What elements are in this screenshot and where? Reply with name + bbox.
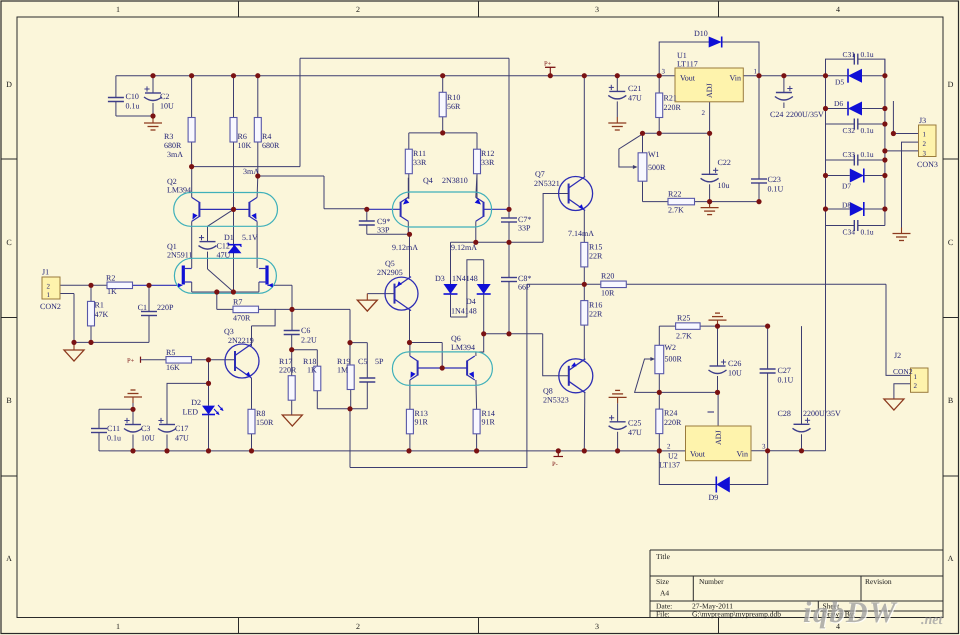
svg-text:500R: 500R: [648, 163, 666, 172]
svg-text:C33: C33: [843, 150, 856, 159]
svg-text:R8: R8: [256, 409, 265, 418]
svg-text:C23: C23: [768, 175, 781, 184]
svg-text:2N2905: 2N2905: [377, 268, 403, 277]
svg-text:33P: 33P: [377, 226, 390, 235]
svg-text:3: 3: [595, 5, 599, 14]
svg-text:C: C: [948, 238, 953, 247]
svg-text:2: 2: [702, 109, 706, 117]
svg-text:2: 2: [667, 443, 671, 451]
svg-text:10u: 10u: [718, 181, 730, 190]
svg-text:ADJ: ADJ: [714, 430, 723, 445]
svg-text:1N4148: 1N4148: [451, 307, 477, 316]
svg-text:J2: J2: [894, 351, 901, 360]
svg-text:C24: C24: [770, 110, 783, 119]
svg-text:Vin: Vin: [736, 450, 748, 459]
svg-text:D7: D7: [842, 182, 851, 191]
svg-text:C11: C11: [107, 424, 120, 433]
svg-text:91R: 91R: [482, 418, 496, 427]
svg-text:D9: D9: [709, 493, 719, 502]
svg-text:0.1U: 0.1U: [778, 376, 794, 385]
svg-text:1K: 1K: [107, 287, 117, 296]
svg-text:9.12mA: 9.12mA: [451, 243, 477, 252]
svg-text:2.2U: 2.2U: [301, 336, 317, 345]
svg-text:5.1V: 5.1V: [242, 233, 258, 242]
svg-text:R5: R5: [166, 348, 175, 357]
svg-text:47K: 47K: [95, 310, 109, 319]
svg-text:9.12mA: 9.12mA: [392, 243, 418, 252]
svg-text:Title: Title: [656, 552, 671, 561]
svg-text:680R: 680R: [262, 141, 280, 150]
svg-text:10U: 10U: [160, 102, 174, 111]
svg-text:0.1u: 0.1u: [861, 150, 874, 159]
svg-text:C34: C34: [843, 228, 856, 237]
svg-text:2N5911: 2N5911: [167, 251, 192, 260]
svg-text:C6: C6: [301, 326, 310, 335]
svg-text:LM394: LM394: [451, 343, 475, 352]
svg-text:33R: 33R: [413, 158, 427, 167]
svg-text:22R: 22R: [589, 310, 603, 319]
svg-text:A: A: [6, 554, 12, 563]
svg-text:U2: U2: [668, 452, 678, 461]
svg-text:3: 3: [662, 68, 666, 76]
svg-text:1: 1: [923, 131, 927, 139]
svg-text:1K: 1K: [307, 366, 317, 375]
svg-text:470R: 470R: [233, 314, 251, 323]
svg-text:10R: 10R: [601, 289, 615, 298]
svg-text:CON3: CON3: [917, 160, 938, 169]
svg-text:B: B: [6, 396, 11, 405]
svg-text:R20: R20: [601, 272, 614, 281]
svg-text:C27: C27: [778, 366, 791, 375]
svg-text:R21: R21: [664, 94, 677, 103]
svg-text:500R: 500R: [665, 355, 683, 364]
svg-text:220R: 220R: [279, 366, 297, 375]
svg-text:Vout: Vout: [680, 74, 696, 83]
svg-text:D6: D6: [834, 99, 843, 108]
svg-text:C12: C12: [217, 242, 230, 251]
svg-text:R25: R25: [677, 314, 690, 323]
svg-text:W2: W2: [665, 343, 677, 352]
svg-text:R22: R22: [668, 190, 681, 199]
svg-text:2200U/35V: 2200U/35V: [803, 409, 841, 418]
svg-text:2: 2: [914, 382, 918, 390]
svg-text:P-: P-: [552, 461, 558, 468]
svg-text:B: B: [948, 396, 953, 405]
svg-text:File:: File:: [656, 610, 670, 619]
svg-text:220R: 220R: [664, 103, 682, 112]
svg-text:Q7: Q7: [535, 170, 545, 179]
svg-text:1M: 1M: [337, 366, 348, 375]
svg-text:Revision: Revision: [865, 577, 892, 586]
svg-text:D4: D4: [466, 297, 476, 306]
svg-text:2N2219: 2N2219: [228, 336, 254, 345]
svg-text:Q4: Q4: [423, 176, 433, 185]
svg-text:D: D: [948, 80, 954, 89]
svg-text:150R: 150R: [256, 418, 274, 427]
svg-text:4: 4: [836, 5, 840, 14]
svg-text:C21: C21: [628, 84, 641, 93]
svg-text:C3: C3: [141, 424, 150, 433]
svg-text:Q3: Q3: [224, 327, 234, 336]
svg-text:R11: R11: [413, 149, 426, 158]
svg-text:56R: 56R: [447, 102, 461, 111]
svg-text:CON2: CON2: [893, 367, 913, 376]
svg-text:J3: J3: [919, 116, 926, 125]
svg-text:0.1u: 0.1u: [861, 228, 874, 237]
svg-text:C25: C25: [628, 419, 641, 428]
svg-text:7.14mA: 7.14mA: [568, 229, 594, 238]
svg-text:C10: C10: [126, 92, 139, 101]
svg-text:R2: R2: [106, 274, 115, 283]
svg-text:47U: 47U: [175, 434, 189, 443]
svg-text:680R: 680R: [164, 141, 182, 150]
svg-text:2N5323: 2N5323: [543, 396, 569, 405]
svg-text:2N5321: 2N5321: [534, 179, 560, 188]
svg-text:Q6: Q6: [451, 334, 461, 343]
svg-text:Q8: Q8: [543, 387, 553, 396]
svg-text:Vin: Vin: [729, 74, 741, 83]
svg-text:C5: C5: [358, 357, 367, 366]
svg-text:1: 1: [754, 68, 758, 76]
svg-text:2: 2: [923, 140, 927, 148]
svg-text:CON2: CON2: [40, 302, 61, 311]
svg-text:2: 2: [356, 622, 360, 631]
svg-text:47U: 47U: [628, 428, 642, 437]
svg-text:16K: 16K: [166, 363, 180, 372]
svg-text:R12: R12: [481, 149, 494, 158]
svg-text:P+: P+: [544, 61, 552, 68]
svg-text:3: 3: [595, 622, 599, 631]
svg-text:1: 1: [914, 373, 918, 381]
svg-text:R3: R3: [164, 132, 173, 141]
svg-text:10U: 10U: [141, 434, 155, 443]
svg-text:1: 1: [47, 291, 51, 299]
svg-text:D10: D10: [694, 29, 708, 38]
svg-text:P+: P+: [127, 358, 135, 365]
svg-text:R4: R4: [262, 132, 271, 141]
svg-text:66P: 66P: [518, 283, 531, 292]
svg-text:Number: Number: [699, 577, 724, 586]
svg-text:2: 2: [47, 283, 51, 291]
svg-text:C22: C22: [718, 158, 731, 167]
svg-text:1: 1: [116, 5, 120, 14]
svg-text:R10: R10: [447, 93, 460, 102]
svg-text:2.7K: 2.7K: [676, 332, 692, 341]
svg-text:R15: R15: [589, 243, 602, 252]
svg-text:2N3810: 2N3810: [442, 176, 468, 185]
svg-text:W1: W1: [648, 150, 660, 159]
svg-text:C17: C17: [175, 424, 188, 433]
svg-text:G:\mypreamp\mypreamp.ddb: G:\mypreamp\mypreamp.ddb: [692, 610, 781, 619]
svg-text:C: C: [6, 238, 11, 247]
svg-text:C1: C1: [138, 303, 147, 312]
svg-text:D3: D3: [435, 274, 445, 283]
svg-text:C26: C26: [728, 359, 741, 368]
svg-text:.net: .net: [921, 613, 944, 628]
svg-text:J1: J1: [42, 268, 49, 277]
svg-text:R16: R16: [589, 301, 602, 310]
svg-text:LT137: LT137: [659, 461, 680, 470]
svg-text:33R: 33R: [481, 158, 495, 167]
svg-text:R24: R24: [664, 409, 677, 418]
svg-text:0.1U: 0.1U: [768, 185, 784, 194]
svg-text:R6: R6: [238, 132, 247, 141]
svg-text:10U: 10U: [728, 369, 742, 378]
svg-text:ADJ: ADJ: [705, 83, 714, 98]
svg-text:0.1u: 0.1u: [107, 434, 121, 443]
svg-text:D5: D5: [835, 78, 844, 87]
svg-text:0.1u: 0.1u: [861, 126, 874, 135]
svg-text:C2: C2: [160, 92, 169, 101]
svg-text:D: D: [6, 80, 12, 89]
svg-text:Vout: Vout: [690, 450, 706, 459]
svg-text:R7: R7: [233, 298, 242, 307]
svg-text:Q5: Q5: [385, 259, 395, 268]
svg-text:LM394: LM394: [167, 186, 191, 195]
svg-text:iqbDW: iqbDW: [803, 596, 898, 629]
svg-text:33P: 33P: [518, 224, 531, 233]
svg-text:C28: C28: [778, 409, 791, 418]
svg-text:LT117: LT117: [677, 60, 698, 69]
svg-text:0.1u: 0.1u: [861, 50, 874, 59]
svg-text:LED: LED: [182, 408, 198, 417]
svg-text:A: A: [948, 554, 954, 563]
svg-text:R1: R1: [95, 301, 104, 310]
svg-text:3mA: 3mA: [167, 150, 183, 159]
svg-text:91R: 91R: [415, 418, 429, 427]
svg-text:2.7K: 2.7K: [668, 206, 684, 215]
svg-text:D2: D2: [191, 398, 201, 407]
svg-text:0.1u: 0.1u: [126, 102, 140, 111]
svg-text:3: 3: [923, 150, 927, 158]
svg-text:2200U/35V: 2200U/35V: [786, 110, 824, 119]
svg-text:5P: 5P: [375, 357, 384, 366]
svg-text:3: 3: [762, 443, 766, 451]
svg-text:D8: D8: [842, 201, 851, 210]
svg-text:22R: 22R: [589, 252, 603, 261]
svg-text:47U: 47U: [628, 94, 642, 103]
svg-text:Size: Size: [656, 577, 670, 586]
svg-text:1: 1: [116, 622, 120, 631]
svg-text:2: 2: [356, 5, 360, 14]
svg-text:C32: C32: [843, 126, 856, 135]
svg-text:10K: 10K: [238, 141, 252, 150]
svg-text:220R: 220R: [664, 418, 682, 427]
svg-text:A4: A4: [660, 589, 669, 598]
svg-text:C31: C31: [843, 50, 856, 59]
svg-text:1N4148: 1N4148: [452, 274, 478, 283]
svg-text:220P: 220P: [157, 303, 174, 312]
